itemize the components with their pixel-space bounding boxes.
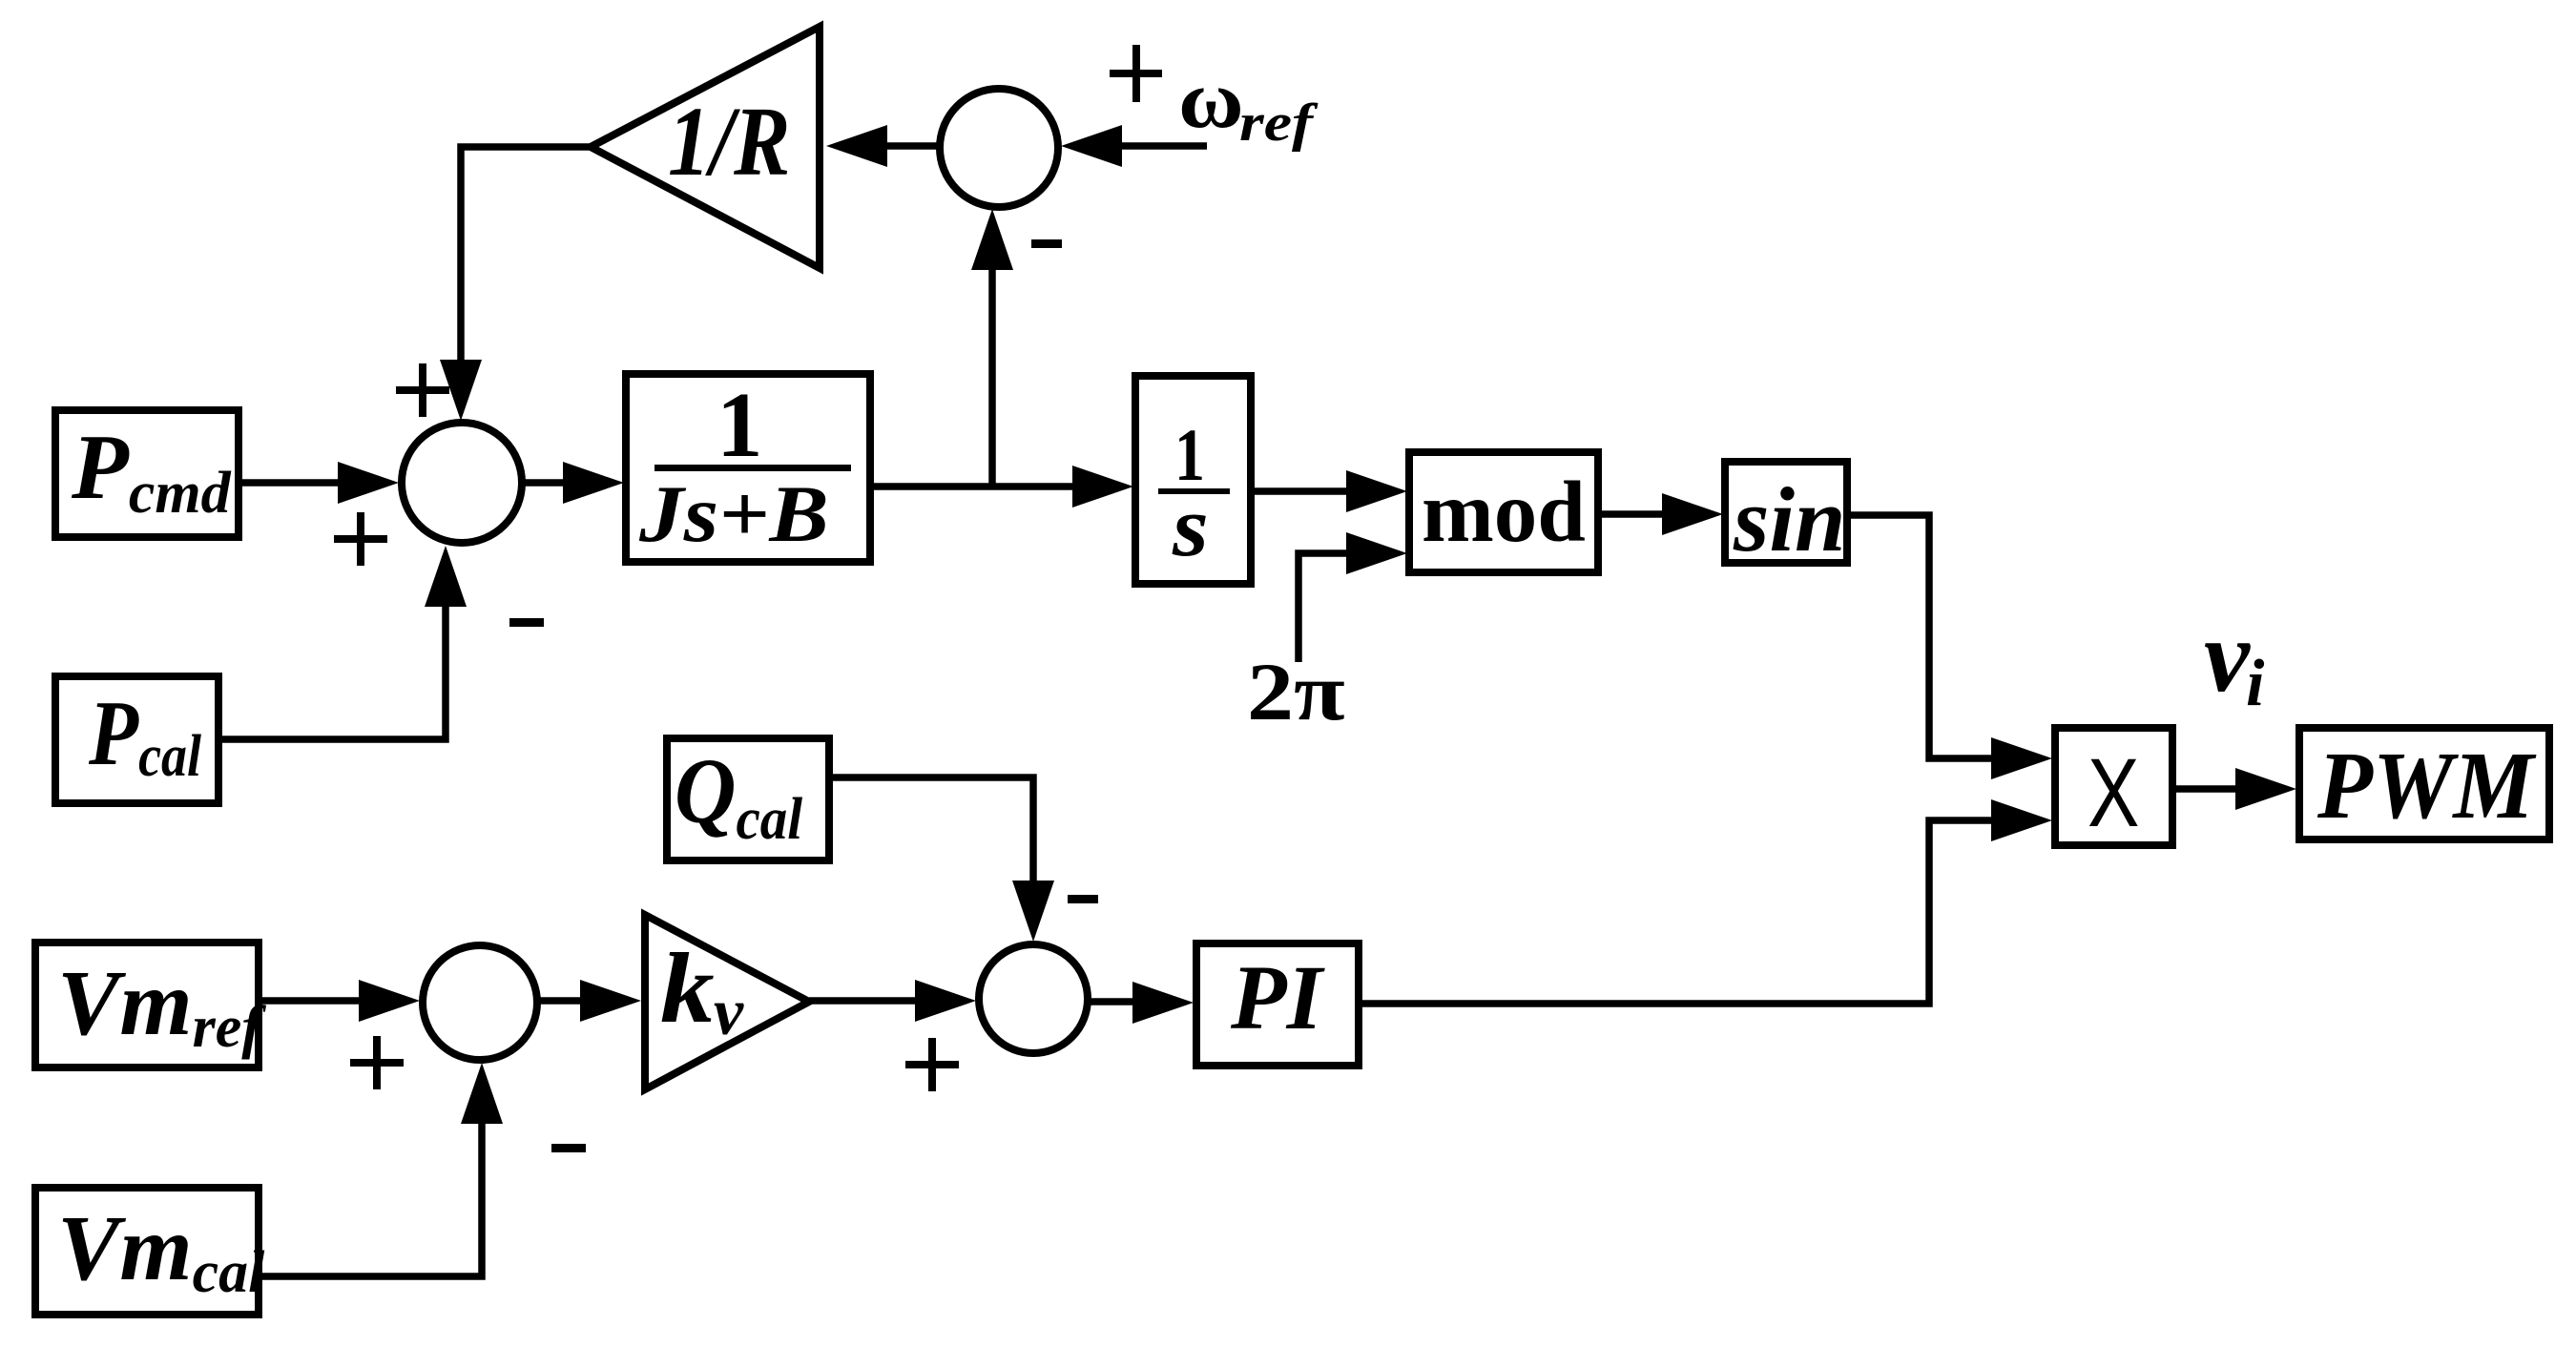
block mod <box>1409 452 1598 572</box>
svg-text:Js+B: Js+B <box>638 469 829 559</box>
block Vm_cal <box>35 1188 265 1315</box>
wire P_cal up into S1 <box>218 565 446 739</box>
gain triangle k_v <box>645 915 809 1089</box>
wire S1 to Js+B <box>522 479 601 487</box>
gain triangle 1/R <box>591 27 820 268</box>
block P_cal <box>55 676 218 803</box>
minus sign below S2 <box>1031 239 1062 248</box>
wire S3 to k_v <box>540 997 622 1005</box>
svg-text:sin: sin <box>1733 468 1845 570</box>
wire X to PWM <box>2172 785 2275 793</box>
block P_cmd <box>55 410 239 537</box>
svg-text:mod: mod <box>1422 464 1586 560</box>
multiplier block X <box>2055 728 2172 847</box>
wire 2pi to mod input 2 <box>1298 553 1385 662</box>
plus sign at S4 <box>905 1038 959 1091</box>
plus sign left of S1 <box>334 512 387 566</box>
wire mod to sin <box>1598 510 1703 518</box>
svg-text:i: i <box>2246 647 2265 720</box>
svg-text:PWM: PWM <box>2316 733 2537 839</box>
svg-text:1: 1 <box>717 374 763 476</box>
svg-text:X: X <box>2088 737 2139 847</box>
wire Js+B to 1/s <box>870 483 1111 490</box>
block PWM <box>2299 728 2549 839</box>
wire Q_cal down into S4 <box>825 777 1033 920</box>
block sin <box>1725 462 1847 570</box>
minus sign above S4 <box>1068 895 1098 903</box>
wire 1/s to mod input 1 <box>1251 487 1388 495</box>
svg-text:k: k <box>660 933 715 1044</box>
block Q_cal <box>667 738 829 860</box>
wire S4 to PI <box>1091 998 1174 1005</box>
plus sign at S3 <box>350 1036 404 1089</box>
transfer function block 1/(Js+B) <box>626 374 870 562</box>
block PI <box>1196 943 1359 1066</box>
summing junction S2 (omega sum) <box>940 89 1058 207</box>
svg-text:v: v <box>714 976 744 1049</box>
summing junction S4 (Q sum) <box>979 944 1088 1053</box>
minus sign below S1 <box>509 618 544 627</box>
label omega_ref <box>1178 52 1244 145</box>
integrator block 1/s <box>1135 376 1251 584</box>
svg-text:ref: ref <box>1239 93 1319 153</box>
label 2pi <box>1247 647 1345 737</box>
wire PI up to X input 2 <box>1359 820 2032 1004</box>
wire Vm_cal up into S3 <box>259 1082 482 1276</box>
plus sign at S2 input <box>1110 45 1162 102</box>
wire sin down to X input 1 <box>1847 515 2032 758</box>
block Vm_ref <box>35 943 266 1067</box>
svg-text:2π: 2π <box>1247 647 1345 737</box>
plus sign above S1 <box>396 363 449 417</box>
wire omega_ref into S2 <box>1080 142 1207 150</box>
wire Vm_ref to S3 <box>259 997 399 1005</box>
svg-text:ω: ω <box>1178 52 1244 145</box>
svg-text:PI: PI <box>1230 946 1326 1048</box>
svg-text:s: s <box>1172 480 1209 574</box>
svg-text:v: v <box>2204 600 2251 714</box>
summing junction S3 (Vm sum) <box>423 945 537 1060</box>
wire P_cmd to S1 <box>239 479 372 487</box>
summing junction S1 (P sum) <box>402 423 522 543</box>
wire 1/R output down into S1 <box>461 147 591 401</box>
wire S2 to 1/R <box>847 142 937 150</box>
wire k_v to S4 <box>809 997 956 1005</box>
svg-text:1/R: 1/R <box>668 87 790 197</box>
minus sign below S3 <box>551 1144 586 1152</box>
wire branch up to S2 <box>988 227 996 487</box>
